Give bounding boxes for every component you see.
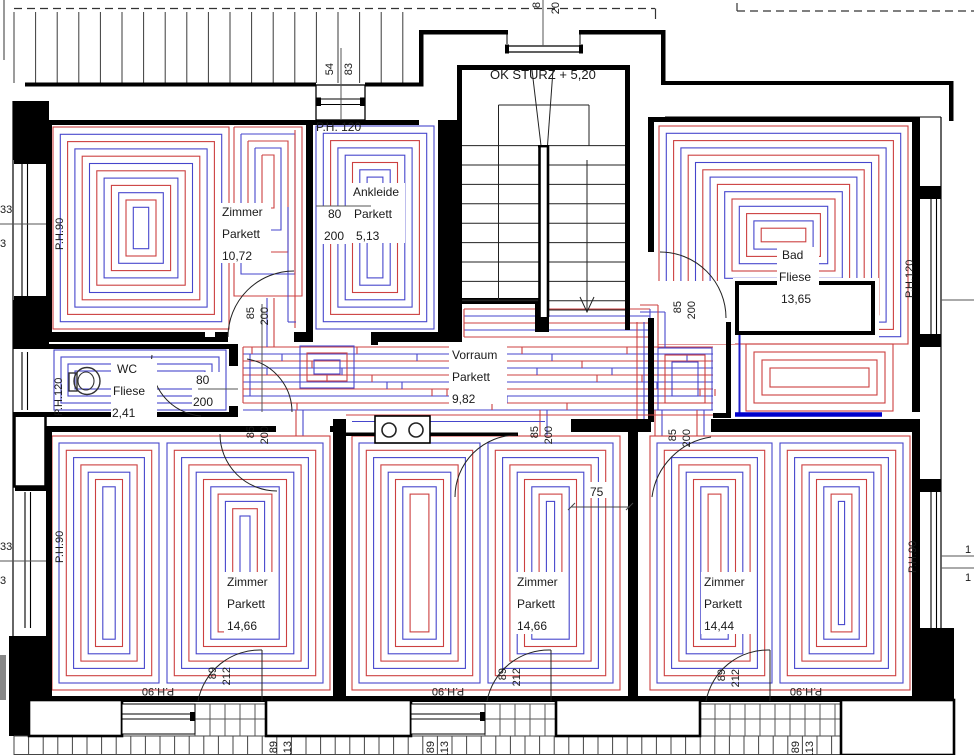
wall BL room left	[46, 426, 52, 700]
label 33 b	[0, 541, 12, 553]
door arc Zimmer BM top	[455, 435, 517, 497]
bottom window 2	[411, 704, 485, 734]
svg-text:89: 89	[790, 741, 802, 753]
svg-text:89: 89	[207, 667, 219, 679]
wall BL room top right piece	[330, 426, 338, 432]
heating loop Zimmer top-left big	[53, 127, 229, 329]
svg-text:200: 200	[193, 395, 213, 409]
heating loop Zimmer bottom-right left coil	[657, 443, 772, 683]
label 3 b	[0, 575, 6, 587]
svg-text:P.H.90: P.H.90	[54, 531, 66, 563]
wall WC right lower	[229, 406, 238, 417]
heating loop Zimmer bottom-left left coil	[59, 443, 159, 683]
svg-text:200: 200	[681, 429, 693, 447]
svg-text:89: 89	[716, 669, 728, 681]
door dim BL	[245, 426, 271, 444]
dormer window box	[316, 85, 365, 120]
wall stair hall bottom-left block	[448, 296, 462, 332]
wall Bad right	[912, 117, 920, 412]
heating loop Vorraum main band	[243, 347, 715, 410]
svg-text:1: 1	[965, 544, 971, 556]
heating loop Ankleide	[316, 126, 434, 329]
wall WC right	[229, 344, 238, 366]
door dim TL	[245, 307, 271, 325]
right facade outer line	[940, 117, 942, 700]
door arc Zimmer BR top	[652, 437, 711, 497]
wall WC bottom	[13, 412, 233, 417]
parapet pier A	[29, 700, 122, 736]
svg-text:1: 1	[965, 572, 971, 584]
svg-text:212: 212	[730, 669, 742, 687]
right facade stub 3	[917, 479, 941, 492]
label PH120 WC	[53, 378, 65, 416]
right facade stub 1	[917, 186, 941, 199]
label PH120 top	[316, 120, 361, 134]
wall right top corner	[949, 81, 954, 121]
wall Ankleide bottom	[371, 332, 457, 342]
right facade stub 2	[917, 334, 941, 347]
door dim Ankleide	[316, 206, 371, 244]
svg-text:83: 83	[343, 63, 355, 75]
svg-text:P.H.90: P.H.90	[907, 541, 919, 573]
door dim WC	[192, 372, 238, 409]
wall stair bay left	[419, 30, 424, 87]
wall stair divider stub	[535, 304, 549, 332]
wall Bad left upper	[648, 117, 654, 252]
balcony grid hatch	[14, 704, 955, 755]
window right W2	[931, 492, 937, 628]
svg-text:54: 54	[324, 63, 336, 75]
white-out Bad door area	[657, 281, 735, 344]
dashed eaves line left	[14, 9, 656, 20]
heating pipe TL right edge	[288, 130, 296, 328]
room label Zimmer BL	[224, 572, 276, 634]
svg-text:14,44: 14,44	[704, 619, 734, 633]
svg-text:WC: WC	[117, 362, 137, 376]
svg-text:Parkett: Parkett	[354, 207, 393, 221]
dim line dormer	[340, 48, 342, 122]
svg-text:85: 85	[529, 426, 541, 438]
heating loop Bad upper	[659, 126, 908, 344]
svg-text:Parkett: Parkett	[227, 597, 266, 611]
svg-text:80: 80	[328, 207, 342, 221]
door arc WC corridor	[247, 359, 292, 412]
heating pipes stair-to-Bad corridor	[637, 322, 644, 430]
stair divider wall	[538, 146, 549, 317]
label PH90 bottom right	[790, 685, 822, 697]
heating pipes BR door	[655, 410, 704, 436]
label 20	[550, 2, 562, 14]
heating pipes BM door	[540, 410, 547, 436]
svg-text:20: 20	[550, 2, 562, 14]
bottom window 1	[122, 704, 195, 734]
wall Bad top	[648, 117, 917, 122]
svg-text:2,41: 2,41	[112, 406, 136, 420]
wall BR room top	[711, 419, 920, 432]
heating meander Bad lower-left	[658, 348, 712, 410]
svg-text:Ankleide: Ankleide	[353, 185, 399, 199]
svg-text:89: 89	[425, 741, 437, 753]
label 33 a	[0, 204, 12, 216]
heating loop Zimmer bottom-right outer ring	[650, 436, 910, 690]
svg-text:Fliese: Fliese	[113, 384, 145, 398]
door dim BM	[529, 426, 555, 444]
label right 1	[965, 544, 971, 556]
bathtub Bad	[737, 283, 873, 333]
window left W3	[15, 487, 46, 628]
window dim bottom 2	[425, 741, 451, 755]
heating loop Zimmer top-left narrow	[234, 127, 302, 296]
svg-text:3: 3	[0, 238, 6, 250]
stair winder lines	[532, 70, 553, 146]
svg-text:212: 212	[221, 667, 233, 685]
room label Zimmer TL	[219, 203, 271, 263]
label 3 a	[0, 238, 6, 250]
wall TL/Ankleide divider	[306, 120, 313, 342]
door arc balcony BM	[487, 650, 551, 701]
door arc Bad	[660, 252, 726, 318]
heating pipes Bad door	[640, 305, 665, 348]
wall top-right eaves	[661, 81, 953, 85]
parapet pier C	[556, 700, 700, 736]
wall stair bay top-left	[419, 30, 508, 35]
svg-text:9,82: 9,82	[452, 392, 476, 406]
svg-text:113: 113	[439, 741, 451, 755]
svg-text:Zimmer: Zimmer	[227, 575, 268, 589]
svg-text:33: 33	[0, 541, 12, 553]
svg-text:212: 212	[511, 668, 523, 686]
left facade outer line	[12, 101, 14, 636]
svg-text:113: 113	[804, 741, 816, 755]
label 54	[324, 63, 336, 75]
label PH120 Bad	[904, 260, 916, 298]
svg-text:89: 89	[497, 668, 509, 680]
window dim bottom 3	[790, 741, 816, 755]
dormer window glass	[316, 98, 365, 107]
svg-text:33: 33	[0, 204, 12, 216]
left facade block top	[13, 101, 49, 160]
bay window glass	[505, 35, 583, 54]
svg-text:113: 113	[282, 741, 294, 755]
label PH90 bottom left	[142, 685, 174, 697]
wall BL/BM divider	[333, 419, 346, 700]
room label Zimmer BR	[701, 572, 753, 634]
label 83	[343, 63, 355, 75]
svg-text:14,66: 14,66	[227, 619, 257, 633]
svg-text:Vorraum: Vorraum	[452, 348, 497, 362]
wall stair hall bottom-left	[457, 298, 541, 304]
wall top rooms top	[46, 120, 419, 125]
door arc balcony BL	[198, 650, 262, 701]
wall stair hall left	[457, 65, 462, 302]
svg-text:200: 200	[543, 426, 555, 444]
svg-text:85: 85	[672, 301, 684, 313]
svg-text:5,13: 5,13	[356, 229, 380, 243]
svg-text:Fliese: Fliese	[779, 270, 811, 284]
dim line right 2	[941, 556, 974, 568]
wall Bad left lower	[648, 318, 654, 422]
wall TL bottom right piece	[294, 332, 313, 342]
wall BM counter edge	[346, 433, 518, 437]
room label Vorraum	[449, 344, 507, 406]
svg-text:85: 85	[245, 426, 257, 438]
svg-text:200: 200	[259, 307, 271, 325]
stair direction arrow	[580, 160, 594, 312]
heating loop Zimmer bottom-middle left coil	[359, 443, 480, 683]
svg-text:Parkett: Parkett	[704, 597, 743, 611]
svg-text:P.H.90: P.H.90	[142, 685, 174, 697]
wall roof bottom right of dormer	[365, 83, 419, 87]
label right 2	[965, 572, 971, 584]
svg-text:14,66: 14,66	[517, 619, 547, 633]
wall BR room right	[912, 432, 920, 700]
label 75	[568, 482, 633, 510]
svg-text:85: 85	[667, 429, 679, 441]
svg-text:P.H.90: P.H.90	[54, 218, 66, 250]
door dim Bad	[672, 301, 698, 319]
wall BL room top	[46, 426, 276, 432]
label PH90 BL left	[54, 531, 66, 563]
door arc balcony BR	[706, 650, 770, 701]
heating loop Zimmer bottom-middle right coil	[488, 443, 613, 683]
svg-text:Parkett: Parkett	[517, 597, 556, 611]
heating pipes TL door	[267, 298, 274, 347]
wall Ankleide bottom stub	[371, 332, 378, 345]
label PH90 bottom mid	[432, 685, 464, 697]
svg-text:Parkett: Parkett	[222, 227, 261, 241]
svg-text:P.H.90: P.H.90	[432, 685, 464, 697]
wall stair bay top-right	[579, 30, 665, 35]
stair treads	[462, 146, 625, 310]
room label Bad	[777, 247, 819, 306]
door arc WC interior	[152, 355, 201, 416]
toilet WC	[69, 368, 100, 395]
heating loop Zimmer bottom-left outer ring	[52, 436, 330, 690]
svg-text:200: 200	[259, 426, 271, 444]
wall Ankleide right thick	[438, 120, 462, 342]
svg-text:Zimmer: Zimmer	[517, 575, 558, 589]
wall rooms bottom	[46, 696, 920, 702]
right eaves inner line	[665, 116, 941, 118]
stair landing outline	[499, 105, 590, 300]
dim line bay window	[542, 0, 544, 46]
wall stair bay right	[661, 30, 666, 83]
svg-text:10,72: 10,72	[222, 249, 252, 263]
label 8	[531, 2, 543, 8]
left facade block mid2	[15, 414, 46, 487]
svg-text:3: 3	[0, 575, 6, 587]
room label Ankleide	[351, 183, 405, 243]
page edge marks left	[3, 0, 4, 700]
svg-text:P.H.120: P.H.120	[53, 378, 65, 416]
svg-text:200: 200	[324, 229, 344, 243]
svg-text:Zimmer: Zimmer	[222, 205, 263, 219]
heating pipes BL door	[296, 410, 303, 436]
wall stair hall right	[625, 65, 630, 330]
dim line left 2	[0, 560, 46, 562]
wall BM/BR divider	[628, 432, 638, 700]
room label Zimmer BM	[514, 572, 566, 634]
door dim BL balcony	[207, 667, 233, 685]
heating loop Zimmer bottom-right right coil	[780, 443, 903, 683]
left facade block mid	[13, 300, 49, 347]
thick blue pipe Bad	[735, 412, 882, 417]
left facade block bottom L	[9, 636, 51, 736]
white-out Bad tub area	[733, 278, 879, 338]
door dim BR	[667, 429, 693, 447]
svg-text:P.H.90: P.H.90	[790, 685, 822, 697]
label PH90 TL	[54, 218, 66, 250]
window dim bottom 1	[268, 741, 294, 755]
right facade block bottom	[917, 628, 954, 703]
heating Vorraum upper band under stairs	[464, 309, 650, 344]
svg-text:P.H. 120: P.H. 120	[316, 120, 361, 134]
heating pipe Bad blue riser	[739, 322, 741, 414]
svg-text:Zimmer: Zimmer	[704, 575, 745, 589]
heating loop Zimmer bottom-middle outer ring	[352, 436, 620, 690]
wall TL room bottom	[46, 332, 228, 342]
wall Bad bottom left piece	[628, 419, 651, 432]
svg-text:Parkett: Parkett	[452, 370, 491, 384]
svg-text:89: 89	[268, 741, 280, 753]
svg-text:85: 85	[245, 307, 257, 319]
door arc Zimmer BL top	[220, 434, 277, 491]
heating loop Zimmer bottom-left right coil	[167, 443, 323, 683]
parapet pier D	[841, 700, 954, 755]
kitchen island	[375, 416, 430, 443]
dim line right 1	[941, 299, 974, 301]
window left W1	[14, 160, 48, 300]
door dim BR balcony	[716, 669, 742, 687]
svg-text:13,65: 13,65	[781, 292, 811, 306]
svg-text:8: 8	[531, 2, 543, 8]
dashed eaves line right	[737, 3, 974, 11]
svg-text:OK STURZ + 5,20: OK STURZ + 5,20	[490, 67, 596, 82]
wall WC top	[13, 344, 233, 349]
svg-text:Bad: Bad	[782, 248, 803, 262]
window right W1	[931, 199, 937, 334]
window left WC	[22, 352, 28, 410]
heating loop WC	[54, 350, 226, 410]
room label WC	[111, 359, 157, 420]
svg-text:P.H.120: P.H.120	[904, 260, 916, 298]
svg-text:200: 200	[686, 301, 698, 319]
wall TL room left	[46, 120, 52, 342]
wall Bad vestibule	[713, 322, 731, 418]
heating pipe along counter	[346, 415, 713, 422]
svg-text:80: 80	[196, 373, 210, 387]
heating loop Vorraum pocket below TL wall	[300, 346, 354, 388]
door arc Zimmer TL	[228, 271, 294, 412]
label OK STURZ	[490, 67, 596, 82]
wall BM room top right	[571, 419, 637, 432]
parapet pier B	[266, 700, 411, 736]
roof hatch top-left	[14, 12, 403, 83]
wall roof bottom left section	[25, 83, 316, 87]
wall stair hall top	[457, 65, 630, 70]
heating loop Bad lower	[746, 344, 893, 411]
label PH90 BR right	[907, 541, 919, 573]
svg-text:75: 75	[590, 485, 604, 499]
door dim BM balcony	[497, 668, 523, 686]
dim line left 1	[0, 223, 46, 225]
